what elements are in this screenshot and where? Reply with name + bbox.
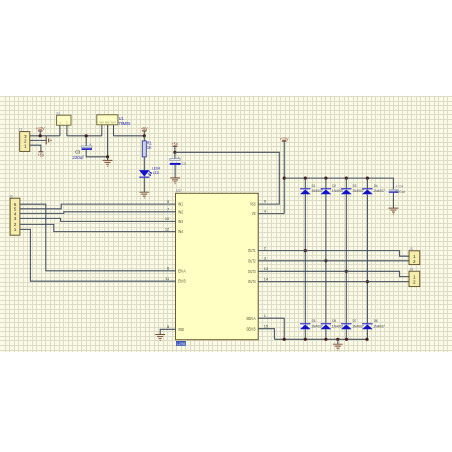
wire J1 pin2 — [30, 139, 46, 141]
wire +12V stub — [39, 131, 41, 136]
wire SEN B to bottom rail — [258, 329, 274, 340]
ground G5 (C4) — [389, 208, 399, 214]
svg-text:11: 11 — [165, 276, 169, 281]
pin 12 IN4 — [165, 226, 184, 234]
wire J1 pin3 to rail segment 1 — [30, 135, 60, 137]
power port +12V P5 — [280, 136, 289, 141]
svg-text:SEN B: SEN B — [246, 326, 255, 331]
schematic sheet background — [0, 96, 452, 352]
svg-text:1N4007: 1N4007 — [311, 189, 323, 193]
wire diode column 4 — [366, 194, 368, 323]
svg-text:+12V: +12V — [36, 126, 45, 131]
value label L298 (highlighted) — [176, 341, 186, 346]
wire J2.5 to IN1 — [20, 204, 176, 209]
wire R1 to LED4 — [143, 157, 145, 170]
svg-text:2: 2 — [413, 280, 416, 285]
pin 6 EN A — [167, 266, 186, 274]
ground G2 (LED4) — [139, 192, 149, 198]
svg-text:2: 2 — [264, 245, 266, 250]
svg-text:1: 1 — [264, 313, 266, 318]
pin 5 IN1 — [167, 199, 184, 207]
node gnd/rail — [336, 338, 339, 341]
node D5/rail — [304, 338, 307, 341]
svg-text:+5V: +5V — [141, 126, 148, 131]
svg-text:D4: D4 — [374, 183, 378, 188]
svg-text:SEN A: SEN A — [246, 316, 255, 321]
pin 14 OUT4 — [248, 276, 269, 284]
svg-text:1N4007: 1N4007 — [373, 324, 385, 328]
connector J4 — [409, 267, 420, 286]
svg-text:220uf: 220uf — [72, 155, 84, 160]
node D7/rail — [345, 338, 348, 341]
wire J2.4 to IN2 — [20, 212, 176, 214]
wire D3 cathode lead — [345, 178, 347, 188]
wire S1 pin1 drop — [59, 125, 61, 136]
node OUT3/column junction — [345, 270, 348, 273]
svg-text:1N4007: 1N4007 — [332, 324, 344, 328]
diode D1 (1N4007) — [300, 183, 323, 194]
node rail/D3 junction — [345, 177, 348, 180]
wire +5V stub at C5 — [174, 146, 176, 152]
wire OUT4 to J4.2 — [258, 281, 409, 283]
wire OUT3 to J4.1 — [258, 271, 409, 276]
svg-text:OUT1: OUT1 — [248, 248, 256, 253]
pin 13 OUT3 — [248, 266, 268, 274]
svg-text:3: 3 — [24, 134, 27, 139]
connector J3 — [409, 247, 420, 265]
svg-text:7: 7 — [167, 207, 169, 212]
connector J1 — [18, 126, 30, 151]
svg-text:78M05: 78M05 — [118, 121, 130, 126]
svg-text:L298: L298 — [177, 341, 186, 346]
connector J2 — [9, 193, 20, 235]
svg-text:1N4007: 1N4007 — [373, 189, 385, 193]
pin 8 GND — [167, 324, 184, 332]
svg-text:6: 6 — [167, 266, 169, 271]
svg-text:1: 1 — [413, 275, 416, 280]
switch S1 — [56, 111, 71, 125]
diode D8 (1N4007) — [362, 318, 385, 329]
svg-text:IN1: IN1 — [178, 202, 183, 207]
wire diode column 3 — [345, 194, 347, 323]
svg-text:5: 5 — [167, 199, 169, 204]
wire +12V drop to VS pin 4 — [258, 141, 284, 214]
svg-text:2: 2 — [14, 222, 17, 227]
svg-text:1N4007: 1N4007 — [311, 324, 323, 328]
pin 4 VS — [252, 208, 267, 216]
node rail/D1 junction — [304, 177, 307, 180]
diode D4 (1N4007) — [362, 183, 385, 194]
svg-text:+5V: +5V — [172, 142, 179, 147]
svg-text:D6: D6 — [332, 318, 336, 323]
node rail/C3 junction — [85, 134, 88, 137]
node C3/U1-GND junction — [106, 155, 109, 158]
diode D7 (1N4007) — [341, 318, 364, 329]
pin 11 EN B — [165, 276, 186, 284]
wire D4 cathode lead — [366, 178, 368, 188]
svg-text:LED: LED — [153, 170, 159, 175]
wire SEN A to bottom rail — [258, 318, 284, 339]
pin 2 OUT1 — [248, 245, 266, 253]
wire J2.3 to IN3 — [20, 218, 176, 221]
wire diode column 1 — [304, 194, 306, 323]
resistor R1 1K — [142, 136, 152, 157]
svg-text:OUT2: OUT2 — [248, 258, 256, 263]
svg-text:D1: D1 — [312, 183, 316, 188]
power port +5V P3 — [141, 126, 148, 131]
svg-text:R1: R1 — [147, 141, 152, 146]
svg-text:6: 6 — [14, 202, 17, 207]
pin 1 SEN A — [246, 313, 266, 321]
svg-text:S1: S1 — [56, 111, 60, 115]
wire diode column 2 — [325, 194, 327, 323]
capacitor C5 — [170, 152, 186, 177]
svg-text:15: 15 — [264, 324, 268, 329]
power port +5V P4 — [172, 142, 179, 147]
wire OUT2 to J3.2 — [258, 260, 409, 262]
svg-text:C5: C5 — [182, 162, 186, 166]
LED LED4 — [139, 166, 161, 178]
svg-text:1N4007: 1N4007 — [352, 324, 364, 328]
wire diode rail +12V — [284, 178, 393, 189]
wire U1 GND drop — [107, 125, 109, 157]
svg-text:3: 3 — [14, 216, 17, 221]
svg-text:VSS: VSS — [250, 202, 256, 207]
wire D1 cathode lead — [304, 178, 306, 188]
svg-text:13: 13 — [264, 266, 268, 271]
pin 15 SEN B — [246, 324, 268, 332]
svg-text:5: 5 — [14, 207, 17, 212]
wire ground stub G6 — [337, 339, 339, 344]
wire bottom ground rail — [274, 338, 367, 340]
svg-text:U1: U1 — [119, 116, 124, 121]
svg-text:D8: D8 — [374, 318, 378, 323]
svg-text:12: 12 — [165, 226, 169, 231]
wire D6 anode lead — [325, 329, 327, 339]
svg-text:OUT3: OUT3 — [248, 269, 256, 274]
wire D2 cathode lead — [325, 178, 327, 188]
wire S1 pin2 drop — [66, 125, 68, 136]
wire J2.2 to IN4 — [20, 224, 176, 231]
wire GND pin 8 — [160, 329, 175, 334]
capacitor C3 (220uf electrolytic) — [72, 136, 107, 160]
svg-text:D5: D5 — [312, 318, 316, 323]
node rail/+5V/R1 junction — [143, 134, 146, 137]
diode D6 (1N4007) — [321, 318, 344, 329]
svg-text:1N4007: 1N4007 — [352, 189, 364, 193]
svg-text:VS: VS — [252, 211, 256, 216]
ground G4 (U2 GND) — [155, 335, 165, 341]
svg-text:4: 4 — [14, 211, 17, 216]
svg-text:+12V: +12V — [280, 136, 289, 141]
node D6/rail — [324, 338, 327, 341]
wire LED4 to ground — [143, 178, 145, 192]
wire J2.6 to EN A — [20, 204, 176, 271]
svg-text:J4: J4 — [409, 267, 413, 271]
pin 7 IN2 — [167, 207, 184, 215]
wire J1 pin1 — [30, 145, 41, 151]
svg-text:1: 1 — [413, 254, 416, 259]
wire OUT1 to J3.1 — [258, 251, 409, 257]
wire D5 anode lead — [304, 329, 306, 339]
pin 3 OUT2 — [248, 256, 266, 264]
power port +5V P2 — [38, 152, 45, 158]
node +5V/C5 junction — [173, 151, 176, 154]
wire J2.1 to EN B — [20, 229, 176, 281]
svg-text:OUT4: OUT4 — [248, 279, 256, 284]
svg-text:J3: J3 — [409, 247, 413, 251]
svg-text:GND: GND — [178, 327, 184, 332]
node OUT2/column junction — [324, 259, 327, 262]
svg-text:IN3: IN3 — [178, 219, 183, 224]
pin 9 VSS — [250, 199, 266, 207]
diode D2 (1N4007) — [321, 183, 344, 194]
node OUT4/column junction — [366, 280, 369, 283]
ground G3 (C5) — [170, 178, 180, 184]
node OUT1/column junction — [304, 249, 307, 252]
wire D7 anode lead — [345, 329, 347, 339]
driver IC U2 L298 — [176, 188, 259, 340]
svg-text:+ C4: + C4 — [395, 185, 403, 189]
svg-text:220uf: 220uf — [395, 190, 406, 194]
node +12V/diode-rail junction — [283, 177, 286, 180]
capacitor C4 220uf — [389, 185, 406, 208]
svg-text:D7: D7 — [353, 318, 357, 323]
wire D8 anode lead — [366, 329, 368, 339]
svg-text:2: 2 — [413, 259, 416, 264]
svg-text:U2: U2 — [176, 188, 181, 193]
node rail/D4 junction — [366, 177, 369, 180]
svg-text:3: 3 — [264, 256, 266, 261]
ground G6 (bottom rail) — [333, 344, 343, 350]
svg-text:1K: 1K — [147, 145, 152, 150]
node rail/+12V junction — [39, 134, 42, 137]
wire rail segment 3 — [114, 135, 145, 137]
node rail/D2 junction — [324, 177, 327, 180]
svg-text:C3: C3 — [75, 149, 81, 154]
svg-text:D2: D2 — [332, 183, 336, 188]
regulator U1 78M05 — [97, 115, 131, 126]
wire U1 VIN drop — [101, 125, 103, 136]
wire ground stub G1 — [107, 157, 109, 161]
svg-text:EN B: EN B — [178, 279, 186, 284]
svg-text:1: 1 — [24, 144, 27, 149]
svg-text:1N4007: 1N4007 — [332, 189, 344, 193]
diode D5 (1N4007) — [300, 318, 323, 329]
node D8/rail — [365, 338, 368, 341]
svg-text:9: 9 — [264, 199, 266, 204]
pin 10 IN3 — [165, 216, 184, 224]
svg-text:8: 8 — [167, 324, 169, 329]
svg-text:EN A: EN A — [178, 268, 186, 273]
wire U1 VOUT drop — [113, 125, 115, 136]
wire +5V rail to VSS pin 9 — [175, 152, 279, 204]
wire rail segment 2 — [67, 135, 102, 137]
ground J1 pin2 (right-facing) — [46, 136, 51, 144]
node SENA/rail — [283, 338, 286, 341]
svg-text:1: 1 — [14, 227, 17, 232]
svg-text:D3: D3 — [353, 183, 357, 188]
diode D3 (1N4007) — [341, 183, 364, 194]
power port +12V P1 — [36, 126, 45, 131]
svg-text:IN4: IN4 — [178, 229, 183, 234]
ground G1 (U1/C3) — [103, 160, 113, 166]
wire +5V stub at R1 — [143, 131, 145, 136]
svg-text:2: 2 — [24, 139, 27, 144]
svg-text:+5V: +5V — [38, 153, 45, 158]
svg-text:IN2: IN2 — [178, 209, 183, 214]
